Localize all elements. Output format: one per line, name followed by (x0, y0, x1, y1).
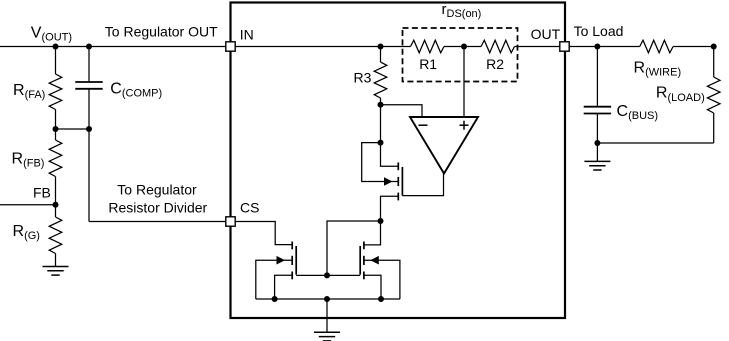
wire FB to R(G) (55, 205, 57, 217)
transistor Q3 body arrow (370, 256, 379, 265)
wire to C(BUS) (596, 47, 598, 107)
svg-text:CS: CS (240, 200, 259, 216)
wire C(COMP) node down to CS (88, 129, 90, 222)
svg-text:R(FA): R(FA) (13, 82, 45, 101)
resistor R(FB) (49, 140, 62, 177)
svg-text:R1: R1 (419, 56, 437, 72)
wire R(G) to ground (55, 254, 57, 267)
wire R(LOAD) bottom (713, 113, 715, 143)
node R(WIRE)/R(LOAD) (711, 44, 717, 50)
wire Q2 source (275, 275, 293, 299)
node mirror gates (324, 272, 330, 278)
wire mid node (56, 128, 90, 130)
wire R1 to R2 (444, 46, 481, 48)
node IN/R3 (378, 44, 384, 50)
wire V(OUT) rail to IN (0, 46, 230, 48)
node Q2 source on rail (272, 296, 278, 302)
wire drain node to gates (327, 221, 381, 275)
svg-text:V(OUT): V(OUT) (31, 25, 72, 44)
resistor R3 (374, 62, 387, 98)
wire Q2 gate to mirror node (296, 274, 327, 276)
IC boundary box (231, 3, 566, 319)
wire sense tap to op-amp non-inverting input (463, 47, 465, 118)
pin IN (226, 42, 235, 51)
transistor Q1 body arrow (384, 177, 393, 186)
node Q1 drain / Q3 drain (378, 218, 384, 224)
wire to R(FB) (55, 129, 57, 140)
wire IN to R1 (235, 46, 411, 48)
wire op-amp output to Q1 gate (402, 174, 443, 196)
svg-text:C(BUS): C(BUS) (617, 103, 659, 122)
op-amp U1 (410, 117, 478, 174)
svg-text:R(LOAD): R(LOAD) (656, 85, 705, 104)
svg-text:R3: R3 (354, 70, 372, 86)
wire Q1 source (381, 143, 399, 167)
wire R(FA) to mid node (55, 110, 57, 130)
transistor Q3 channel (363, 242, 365, 250)
wire C(COMP) to mid node (88, 89, 90, 129)
node R3/op-amp minus (378, 102, 384, 108)
wire Q3 source (364, 275, 381, 299)
pin OUT (560, 42, 569, 51)
ground left (43, 266, 69, 268)
wire Q3 body (364, 260, 400, 299)
wire R3 bottom (380, 98, 382, 105)
wire to R(FA) (55, 47, 57, 75)
wire to Q3 drain (364, 221, 381, 245)
node OUT/C(BUS) (594, 44, 600, 50)
ground right (584, 160, 610, 162)
pin CS (226, 217, 235, 226)
svg-text:C(COMP): C(COMP) (110, 80, 162, 99)
wire CS to Q2 drain (235, 222, 292, 245)
svg-text:R(G): R(G) (13, 223, 40, 242)
wire Q2 body (256, 260, 292, 299)
wire to CS pin (89, 221, 230, 223)
svg-text:To Load: To Load (574, 23, 624, 39)
transistor Q1 gate (401, 167, 403, 196)
node Q1 source/body (378, 140, 384, 146)
svg-text:To Regulator OUT: To Regulator OUT (105, 24, 218, 40)
svg-text:Resistor Divider: Resistor Divider (108, 200, 207, 216)
node junction V(OUT)/C(COMP) (86, 44, 92, 50)
wire rail to ground (326, 299, 328, 332)
capacitor C(COMP) (75, 81, 102, 83)
wire OUT to R(WIRE) (569, 46, 640, 48)
resistor R(FA) (49, 74, 62, 110)
svg-text:R(FB): R(FB) (12, 151, 45, 170)
wire R3 top (380, 47, 382, 63)
node Q3 source on rail (378, 296, 384, 302)
transistor Q3 gate (359, 246, 361, 275)
svg-text:FB: FB (33, 185, 51, 201)
svg-text:IN: IN (240, 27, 254, 43)
wire node to Q1 (380, 105, 382, 143)
wire Q1 drain (381, 196, 399, 221)
wire to op-amp inverting input (381, 105, 423, 117)
resistor R(LOAD) (707, 77, 720, 113)
transistor Q1 channel (397, 162, 399, 170)
node rail to ground (324, 296, 330, 302)
wire to C(COMP) (88, 47, 90, 83)
node R1/R2 sense tap (461, 44, 467, 50)
resistor R(WIRE) (640, 40, 673, 53)
wire C(BUS) to node (596, 114, 598, 144)
svg-text:rDS(on): rDS(on) (442, 1, 482, 20)
svg-text:R2: R2 (486, 56, 504, 72)
svg-text:R(WIRE): R(WIRE) (634, 60, 682, 79)
node junction V(OUT)/R(FA) (53, 44, 59, 50)
wire node to ground (596, 143, 598, 161)
capacitor C(BUS) (584, 106, 611, 108)
transistor Q2 gate (295, 246, 297, 275)
wire R(WIRE) to R(LOAD) (673, 46, 714, 48)
wire R2 to OUT pin (515, 46, 561, 48)
transistor Q2 body arrow (277, 256, 286, 265)
node FB (53, 202, 59, 208)
dashed box rDS(on) (403, 28, 518, 82)
wire Q1 body (362, 143, 399, 182)
wire to R(LOAD) (713, 47, 715, 78)
transistor Q2 channel (291, 242, 293, 250)
wire FB (0, 204, 56, 206)
svg-text:OUT: OUT (531, 26, 561, 42)
wire mirror node to Q3 gate (327, 274, 360, 276)
svg-text:To Regulator: To Regulator (117, 182, 197, 198)
wire R(FB) to FB node (55, 177, 57, 205)
wire bottom return (597, 142, 713, 144)
node R(FA)/R(FB) (53, 126, 59, 132)
node C(COMP) bottom (86, 126, 92, 132)
wire source rail (256, 298, 400, 300)
resistor R(G) (49, 217, 62, 254)
ground center (314, 331, 340, 333)
resistor R2 (481, 40, 515, 53)
resistor R1 (411, 40, 445, 53)
node C(BUS)/ground (594, 140, 600, 146)
